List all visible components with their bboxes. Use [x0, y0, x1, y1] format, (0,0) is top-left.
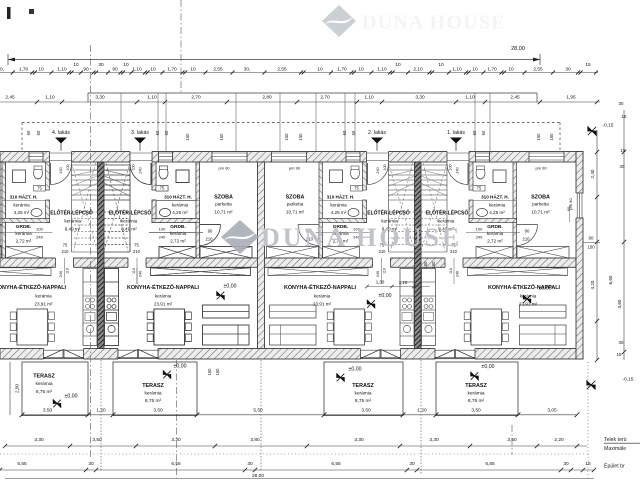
svg-text:240: 240 — [376, 167, 380, 173]
svg-text:±0,00: ±0,00 — [539, 285, 552, 291]
svg-text:kerámia: kerámia — [64, 219, 81, 224]
svg-text:23,91 m²: 23,91 m² — [313, 302, 332, 307]
svg-text:3,50: 3,50 — [471, 407, 481, 413]
svg-text:100: 100 — [132, 164, 136, 170]
svg-text:4,25 m²: 4,25 m² — [172, 210, 188, 215]
svg-text:2,45: 2,45 — [510, 94, 520, 100]
svg-text:100: 100 — [476, 227, 483, 232]
svg-text:kerámia: kerámia — [13, 203, 30, 208]
svg-text:75: 75 — [37, 185, 42, 190]
svg-text:1,70: 1,70 — [487, 66, 497, 72]
svg-text:parketta: parketta — [532, 202, 549, 207]
svg-text:kerámia: kerámia — [172, 203, 189, 208]
upper floor dashed outline — [22, 122, 560, 124]
svg-text:8,49 m²: 8,49 m² — [121, 227, 137, 232]
svg-text:1,10: 1,10 — [399, 280, 408, 285]
svg-text:1,10: 1,10 — [364, 94, 374, 100]
projection line box — [88, 92, 537, 94]
svg-text:10: 10 — [508, 66, 514, 72]
svg-text:SZOBA: SZOBA — [286, 194, 305, 200]
svg-text:90: 90 — [589, 236, 594, 241]
svg-text:2,55: 2,55 — [213, 66, 223, 72]
dash-dot guide x=176.5 — [176, 360, 178, 478]
svg-text:SZOBA: SZOBA — [214, 194, 233, 200]
svg-text:150: 150 — [185, 133, 190, 141]
dotted guide x=421 — [420, 360, 422, 475]
svg-text:15: 15 — [617, 352, 622, 357]
svg-text:1,10: 1,10 — [132, 66, 142, 72]
unit 1 geometry (shifted) — [421, 151, 569, 360]
svg-text:30: 30 — [247, 461, 253, 467]
svg-text:3. lakás: 3. lakás — [131, 130, 149, 136]
svg-text:DUNA HOUSE: DUNA HOUSE — [261, 223, 462, 252]
left cut wall stub — [0, 162, 6, 258]
svg-text:SZOBA: SZOBA — [531, 194, 550, 200]
svg-text:3,30: 3,30 — [429, 437, 439, 443]
right wall window — [575, 193, 583, 218]
svg-text:TERASZ: TERASZ — [33, 373, 55, 379]
svg-text:3,30: 3,30 — [34, 437, 44, 443]
svg-text:6,55: 6,55 — [171, 461, 181, 467]
watermark fragment top — [322, 5, 356, 37]
svg-text:1,20: 1,20 — [96, 407, 106, 413]
svg-text:75: 75 — [160, 185, 165, 190]
unit 4 geometry (mirror) — [0, 151, 98, 360]
dotted guide x=261 — [260, 360, 262, 472]
svg-text:1. lakás: 1. lakás — [447, 130, 465, 136]
svg-text:150: 150 — [587, 245, 595, 250]
dotted guide x=101 — [100, 360, 102, 472]
unit geometry definition — [104, 151, 252, 360]
svg-text:1,10: 1,10 — [452, 66, 462, 72]
svg-text:60: 60 — [26, 130, 31, 135]
svg-text:kerámia: kerámia — [144, 390, 161, 396]
svg-text:150: 150 — [536, 133, 541, 141]
dimension chain row 2 — [0, 101, 600, 103]
svg-text:kerámia: kerámia — [155, 294, 172, 299]
svg-text:2,80: 2,80 — [262, 94, 272, 100]
svg-text:TERASZ: TERASZ — [352, 383, 374, 389]
svg-text:30: 30 — [409, 461, 415, 467]
svg-text:110: 110 — [383, 268, 387, 274]
svg-text:3,30: 3,30 — [415, 94, 425, 100]
svg-text:kerámia: kerámia — [487, 231, 504, 236]
svg-text:DUNA HOUSE: DUNA HOUSE — [362, 12, 506, 34]
svg-text:3,50: 3,50 — [361, 407, 371, 413]
svg-text:3,50: 3,50 — [92, 437, 102, 443]
svg-text:3,30: 3,30 — [95, 94, 105, 100]
svg-text:30: 30 — [563, 461, 569, 467]
svg-text:110: 110 — [132, 268, 136, 274]
svg-text:4,25 m²: 4,25 m² — [331, 210, 347, 215]
svg-text:pm 90: pm 90 — [289, 166, 301, 171]
svg-text:100: 100 — [66, 164, 70, 170]
svg-text:6,55: 6,55 — [17, 461, 27, 467]
svg-text:±0,00: ±0,00 — [65, 393, 78, 399]
overall dimension 28,00 line — [8, 59, 540, 61]
svg-text:±0,00: ±0,00 — [174, 363, 187, 369]
svg-text:10: 10 — [123, 62, 129, 68]
svg-text:TERASZ: TERASZ — [465, 383, 487, 389]
svg-text:210: 210 — [206, 237, 214, 242]
right exterior wall — [576, 152, 583, 360]
svg-text:kerámia: kerámia — [35, 381, 52, 387]
terrace 4 — [22, 362, 88, 416]
bottom exterior wall band — [0, 349, 583, 360]
svg-text:60: 60 — [164, 130, 169, 135]
terrace 3 — [113, 362, 197, 416]
svg-text:6,55: 6,55 — [331, 461, 341, 467]
svg-text:10: 10 — [395, 62, 401, 68]
svg-text:pm 90: pm 90 — [218, 166, 230, 171]
svg-text:310 HÁZT. H.: 310 HÁZT. H. — [481, 194, 509, 200]
svg-text:310 HÁZT. H.: 310 HÁZT. H. — [164, 194, 192, 200]
svg-text:150: 150 — [207, 368, 212, 376]
dotted plot boundary vertical — [587, 362, 589, 480]
svg-text:2,50: 2,50 — [15, 384, 20, 393]
svg-text:4,20: 4,20 — [590, 280, 595, 289]
svg-text:2,72 m²: 2,72 m² — [16, 239, 32, 244]
centerline A dash-dot — [90, 45, 92, 457]
svg-text:2,55: 2,55 — [533, 66, 543, 72]
svg-text:1,10: 1,10 — [45, 94, 55, 100]
svg-text:90: 90 — [525, 229, 530, 234]
svg-text:kerámia: kerámia — [489, 203, 506, 208]
svg-text:-0,15: -0,15 — [603, 122, 614, 128]
svg-text:310 HÁZT. H.: 310 HÁZT. H. — [327, 194, 355, 200]
svg-text:3,30: 3,30 — [171, 437, 181, 443]
svg-text:0,: 0, — [0, 66, 4, 72]
svg-text:2,55: 2,55 — [277, 66, 287, 72]
svg-text:310 HÁZT. H.: 310 HÁZT. H. — [10, 194, 38, 200]
svg-text:3,50: 3,50 — [507, 437, 517, 443]
svg-text:10: 10 — [38, 66, 44, 72]
svg-text:15: 15 — [621, 148, 626, 153]
svg-text:23,91 m²: 23,91 m² — [34, 302, 53, 307]
svg-text:kerámia: kerámia — [121, 219, 138, 224]
top-left edge marks — [7, 7, 11, 19]
right dim chain inner — [596, 130, 598, 360]
svg-text:±0,00: ±0,00 — [482, 364, 495, 370]
svg-text:±0,00: ±0,00 — [224, 283, 237, 289]
svg-text:240: 240 — [159, 235, 166, 240]
svg-text:60: 60 — [351, 130, 356, 135]
svg-text:15: 15 — [585, 461, 591, 467]
svg-text:GRDB.: GRDB. — [487, 224, 502, 230]
svg-text:KONYHA-ÉTKEZŐ-NAPPALI: KONYHA-ÉTKEZŐ-NAPPALI — [127, 283, 200, 291]
svg-text:2,70: 2,70 — [191, 94, 201, 100]
svg-text:1,10: 1,10 — [377, 66, 387, 72]
svg-text:ELŐTÉR-LÉPCSŐ: ELŐTÉR-LÉPCSŐ — [109, 208, 152, 216]
dotted plot boundary horizontal — [0, 453, 590, 455]
svg-text:10: 10 — [438, 62, 444, 68]
svg-text:10: 10 — [317, 66, 323, 72]
svg-text:90: 90 — [83, 66, 89, 72]
svg-text:1,70: 1,70 — [19, 66, 29, 72]
dimension row 3,30 — [5, 445, 587, 447]
svg-text:kerámia: kerámia — [15, 231, 32, 236]
svg-text:28,00: 28,00 — [252, 473, 264, 479]
svg-text:KONYHA-ÉTKEZŐ-NAPPALI: KONYHA-ÉTKEZŐ-NAPPALI — [0, 283, 67, 291]
svg-text:75: 75 — [354, 185, 359, 190]
svg-text:2,72 m²: 2,72 m² — [170, 239, 186, 244]
svg-text:8,75 m²: 8,75 m² — [36, 389, 53, 395]
svg-text:240: 240 — [139, 167, 143, 173]
svg-text:150: 150 — [284, 133, 289, 141]
svg-text:110: 110 — [449, 268, 453, 274]
svg-text:8,75 m²: 8,75 m² — [355, 398, 372, 404]
svg-text:6,60: 6,60 — [608, 275, 613, 284]
svg-text:parketta: parketta — [215, 202, 232, 207]
svg-text:kerámia: kerámia — [354, 390, 371, 396]
svg-text:-0,15: -0,15 — [623, 376, 634, 382]
svg-text:30: 30 — [98, 62, 104, 68]
svg-text:8,75 m²: 8,75 m² — [468, 398, 485, 404]
svg-text:10: 10 — [73, 62, 79, 68]
svg-text:240: 240 — [139, 271, 143, 277]
svg-text:30,: 30, — [244, 66, 251, 72]
svg-text:75: 75 — [477, 185, 482, 190]
svg-text:10: 10 — [472, 66, 478, 72]
svg-text:210: 210 — [62, 249, 70, 254]
svg-text:kerámia: kerámia — [170, 231, 187, 236]
centerline B dash-dot top — [180, 0, 182, 93]
svg-text:240: 240 — [36, 235, 43, 240]
watermark duna house logo — [221, 220, 259, 254]
terrace 1 — [436, 362, 518, 416]
svg-text:60: 60 — [472, 130, 477, 135]
svg-text:150: 150 — [298, 133, 303, 141]
svg-text:3,80: 3,80 — [250, 437, 260, 443]
projection verticals — [120, 93, 122, 151]
svg-text:110: 110 — [66, 268, 70, 274]
svg-text:15: 15 — [622, 114, 627, 119]
svg-text:60: 60 — [566, 206, 571, 211]
svg-text:pm 90: pm 90 — [535, 166, 547, 171]
svg-text:75: 75 — [134, 243, 139, 248]
svg-text:1,10: 1,10 — [57, 66, 67, 72]
svg-text:75: 75 — [63, 243, 68, 248]
svg-text:240: 240 — [456, 167, 460, 173]
svg-text:30: 30 — [619, 101, 624, 106]
svg-text:30: 30 — [565, 66, 571, 72]
svg-text:150: 150 — [215, 368, 220, 376]
svg-text:TERASZ: TERASZ — [142, 383, 164, 389]
svg-text:GRDB.: GRDB. — [170, 224, 185, 230]
svg-text:parketta: parketta — [287, 202, 304, 207]
terrace 2 — [324, 362, 403, 416]
svg-text:ELŐTÉR-LÉPCSŐ: ELŐTÉR-LÉPCSŐ — [367, 208, 410, 216]
svg-text:210: 210 — [133, 249, 141, 254]
svg-text:1,70: 1,70 — [167, 66, 177, 72]
svg-text:Telek terü: Telek terü — [604, 437, 627, 443]
party wall units 3-2 — [258, 162, 265, 349]
svg-text:1,20: 1,20 — [417, 407, 427, 413]
svg-text:2,45: 2,45 — [5, 94, 15, 100]
svg-text:240: 240 — [456, 271, 460, 277]
svg-text:240: 240 — [59, 167, 63, 173]
svg-text:4,25 m²: 4,25 m² — [489, 210, 505, 215]
svg-text:23,91 m²: 23,91 m² — [154, 302, 173, 307]
svg-text:15: 15 — [585, 62, 591, 68]
svg-text:5,50: 5,50 — [253, 407, 263, 413]
svg-text:30: 30 — [620, 164, 625, 169]
svg-text:150: 150 — [431, 261, 436, 269]
dimension chain row 1 — [0, 72, 598, 74]
dash-dot guide x=512 — [511, 425, 513, 455]
svg-text:4,25 m²: 4,25 m² — [14, 210, 30, 215]
svg-text:1,95: 1,95 — [566, 94, 576, 100]
party wall units 2-1 — [415, 162, 422, 349]
svg-text:100: 100 — [383, 164, 387, 170]
svg-text:100: 100 — [36, 227, 43, 232]
svg-text:2,70: 2,70 — [320, 94, 330, 100]
bottom 28,00 line — [5, 478, 594, 480]
svg-text:8,49 m²: 8,49 m² — [65, 227, 81, 232]
svg-text:150: 150 — [219, 133, 224, 141]
svg-text:kerámia: kerámia — [314, 294, 331, 299]
svg-text:10: 10 — [150, 66, 156, 72]
svg-text:ELŐTÉR-LÉPCSŐ: ELŐTÉR-LÉPCSŐ — [50, 208, 93, 216]
svg-text:240: 240 — [59, 271, 63, 277]
svg-text:10,71 m²: 10,71 m² — [214, 210, 233, 215]
svg-text:240: 240 — [476, 235, 483, 240]
svg-text:3,05: 3,05 — [547, 407, 557, 413]
svg-text:60: 60 — [155, 130, 160, 135]
unit 3 geometry — [104, 151, 252, 360]
svg-text:kerámia: kerámia — [467, 390, 484, 396]
svg-text:1,10: 1,10 — [147, 94, 157, 100]
svg-text:8,75 m²: 8,75 m² — [145, 398, 162, 404]
svg-text:ELŐTÉR-LÉPCSŐ: ELŐTÉR-LÉPCSŐ — [426, 208, 469, 216]
top exterior wall band — [0, 152, 583, 163]
svg-text:±0,00: ±0,00 — [379, 293, 392, 299]
middle wall band — [0, 258, 576, 267]
svg-text:90: 90 — [208, 229, 213, 234]
svg-text:100: 100 — [449, 164, 453, 170]
svg-text:210: 210 — [523, 237, 531, 242]
svg-text:6,55: 6,55 — [485, 461, 495, 467]
svg-text:4. lakás: 4. lakás — [52, 130, 70, 136]
svg-text:240: 240 — [376, 271, 380, 277]
elevation -0,15 bottom right — [587, 381, 595, 389]
svg-text:3,50: 3,50 — [153, 407, 163, 413]
svg-text:10: 10 — [358, 66, 364, 72]
svg-text:3,60: 3,60 — [617, 299, 622, 308]
svg-text:60: 60 — [481, 130, 486, 135]
svg-text:150: 150 — [423, 261, 428, 269]
elevation -0,15 top right — [588, 127, 596, 135]
terrace dimension row — [22, 414, 577, 416]
svg-text:10: 10 — [190, 66, 196, 72]
svg-text:30: 30 — [88, 461, 94, 467]
svg-text:KONYHA-ÉTKEZŐ-NAPPALI: KONYHA-ÉTKEZŐ-NAPPALI — [284, 283, 357, 291]
svg-text:GRDB.: GRDB. — [16, 224, 31, 230]
party wall units 4-3 — [98, 162, 105, 349]
svg-text:Maximále: Maximále — [604, 446, 626, 452]
svg-text:1,30: 1,30 — [376, 279, 385, 284]
dimension row 6,55 — [0, 469, 594, 471]
svg-text:2,40: 2,40 — [590, 169, 595, 178]
svg-text:60: 60 — [342, 130, 347, 135]
svg-text:2. lakás: 2. lakás — [368, 130, 386, 136]
svg-text:2,72 m²: 2,72 m² — [487, 239, 503, 244]
svg-text:1,70: 1,70 — [337, 66, 347, 72]
svg-text:10,71 m²: 10,71 m² — [286, 210, 305, 215]
svg-text:60: 60 — [36, 130, 41, 135]
svg-text:3,30: 3,30 — [354, 437, 364, 443]
svg-text:100: 100 — [159, 227, 166, 232]
svg-text:30: 30 — [619, 340, 624, 345]
svg-text:23,91 m²: 23,91 m² — [519, 302, 538, 307]
svg-text:1,10: 1,10 — [465, 94, 475, 100]
svg-text:90: 90 — [112, 66, 118, 72]
svg-text:2,20: 2,20 — [554, 437, 564, 443]
svg-text:3,50: 3,50 — [43, 407, 53, 413]
svg-text:±0,00: ±0,00 — [349, 366, 362, 372]
svg-text:kerámia: kerámia — [330, 203, 347, 208]
svg-text:150: 150 — [549, 133, 554, 141]
svg-text:28,00: 28,00 — [511, 46, 525, 52]
door dims near unit 2 kitchen — [367, 286, 430, 288]
svg-text:2,10: 2,10 — [413, 66, 423, 72]
svg-text:kerámia: kerámia — [35, 294, 52, 299]
svg-text:10,71 m²: 10,71 m² — [531, 210, 550, 215]
unit 2 geometry (mirror shifted) — [267, 151, 415, 360]
right dim chain outer — [623, 110, 625, 360]
svg-text:Épület br: Épület br — [604, 462, 625, 469]
